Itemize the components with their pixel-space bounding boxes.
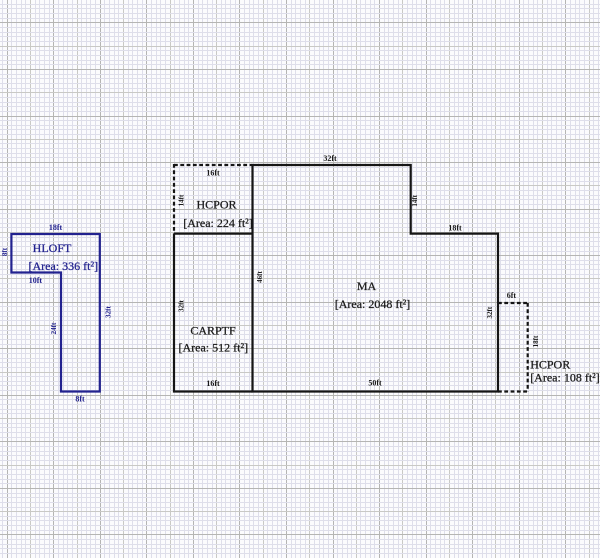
- svg-text:10ft: 10ft: [29, 276, 43, 285]
- HCPOR2 dashed top wall: [498, 302, 528, 304]
- svg-text:8ft: 8ft: [1, 247, 9, 256]
- svg-text:16ft: 16ft: [206, 169, 220, 178]
- svg-text:MA: MA: [357, 279, 377, 293]
- svg-text:18ft: 18ft: [448, 224, 462, 233]
- svg-text:24ft: 24ft: [50, 322, 58, 334]
- svg-text:18ft: 18ft: [532, 335, 540, 347]
- HCPOR dashed top wall: [174, 164, 253, 166]
- HCPOR dashed left wall: [173, 164, 175, 234]
- svg-text:46ft: 46ft: [256, 271, 264, 283]
- svg-text:CARPTF: CARPTF: [190, 324, 236, 338]
- svg-text:16ft: 16ft: [206, 379, 220, 388]
- svg-text:HLOFT: HLOFT: [33, 241, 72, 255]
- HLOFT outline: [11, 234, 99, 392]
- svg-text:HCPOR: HCPOR: [530, 358, 570, 372]
- svg-text:[Area: 224 ft²]: [Area: 224 ft²]: [183, 216, 253, 230]
- HCPOR2 dashed right wall: [527, 303, 529, 392]
- svg-text:32ft: 32ft: [178, 300, 186, 312]
- svg-text:[Area: 336 ft²]: [Area: 336 ft²]: [29, 259, 99, 273]
- HCPOR2 dashed bottom wall: [498, 390, 528, 392]
- svg-text:14ft: 14ft: [178, 194, 186, 206]
- svg-text:[Area: 108 ft²]: [Area: 108 ft²]: [530, 370, 600, 384]
- svg-text:18ft: 18ft: [49, 223, 63, 232]
- svg-text:32ft: 32ft: [105, 306, 113, 318]
- svg-text:50ft: 50ft: [368, 379, 382, 388]
- svg-text:6ft: 6ft: [507, 291, 517, 300]
- svg-text:14ft: 14ft: [411, 194, 419, 206]
- HCPOR/CARPTF divider wall: [174, 233, 253, 235]
- svg-text:[Area: 512 ft²]: [Area: 512 ft²]: [179, 340, 249, 354]
- CARPTF/HCPOR left+bottom solid walls: [174, 234, 253, 392]
- svg-text:32ft: 32ft: [323, 154, 337, 163]
- svg-text:HCPOR: HCPOR: [196, 198, 236, 212]
- svg-text:8ft: 8ft: [75, 395, 85, 404]
- svg-text:[Area: 2048 ft²]: [Area: 2048 ft²]: [335, 297, 411, 311]
- svg-text:32ft: 32ft: [486, 306, 494, 318]
- MA outline: [253, 165, 499, 392]
